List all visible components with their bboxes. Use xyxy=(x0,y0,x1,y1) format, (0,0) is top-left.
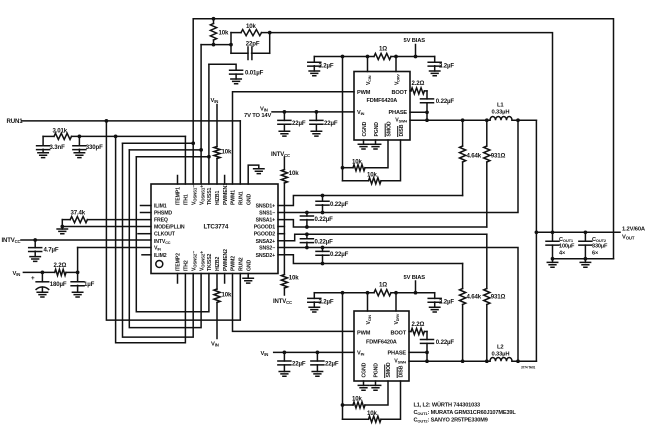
svg-text:RUN1: RUN1 xyxy=(239,191,245,205)
ground xyxy=(580,262,590,267)
resistor 931ohm SNSA1+ xyxy=(486,120,488,146)
wire SMOD/DISB pullup vertical xyxy=(342,57,344,181)
wire PHASE-VSWH tie xyxy=(426,352,428,361)
svg-text:BOOT: BOOT xyxy=(390,331,406,337)
pin stub PGOOD2 xyxy=(278,233,284,235)
wire 5V rail xyxy=(314,56,374,58)
svg-text:VOSNS1−: VOSNS1− xyxy=(191,185,197,205)
wire TK/SS1 pin riser xyxy=(208,64,210,184)
svg-text:10k: 10k xyxy=(246,23,256,30)
wire PWM1 to power stage xyxy=(233,92,355,184)
wire RUN1 pin drop xyxy=(239,121,241,184)
resistor 10k HIZB1 xyxy=(216,105,218,147)
wire VSWH output xyxy=(410,119,490,121)
wire VOSNS1+-VOSNS2+ bracket xyxy=(129,149,201,151)
svg-text:PGOOD2: PGOOD2 xyxy=(254,232,276,238)
ground xyxy=(547,262,557,267)
svg-text:L2: L2 xyxy=(497,344,503,350)
svg-text:COUT2: SANYO 2R5TPE330M9: COUT2: SANYO 2R5TPE330M9 xyxy=(414,418,488,424)
svg-text:CLKOUT: CLKOUT xyxy=(154,232,176,238)
svg-text:SNSA2+: SNSA2+ xyxy=(256,239,276,245)
svg-text:FDMF6420A: FDMF6420A xyxy=(366,340,397,346)
svg-text:ITEMP2: ITEMP2 xyxy=(176,253,182,271)
wire VCIN xyxy=(367,57,369,72)
svg-text:INTVCC: INTVCC xyxy=(273,299,292,305)
svg-text:100µF: 100µF xyxy=(559,244,575,250)
svg-text:ITEMP1: ITEMP1 xyxy=(176,187,182,205)
svg-text:2.2µF: 2.2µF xyxy=(319,299,334,306)
ground xyxy=(72,292,82,297)
svg-text:1.2V/60A: 1.2V/60A xyxy=(622,227,646,233)
svg-text:PWM: PWM xyxy=(357,90,371,96)
capacitor 2.2uF left xyxy=(313,57,315,63)
wire SNSA2+ rail xyxy=(278,234,487,241)
svg-text:0.01µF: 0.01µF xyxy=(245,70,264,77)
svg-text:10k: 10k xyxy=(222,149,232,156)
svg-text:0.33µH: 0.33µH xyxy=(492,109,510,115)
svg-text:1Ω: 1Ω xyxy=(379,46,387,53)
wire VOSNS1+ pin riser xyxy=(200,45,202,184)
resistor 10k DISB xyxy=(381,381,401,419)
svg-text:0.22µF: 0.22µF xyxy=(315,238,334,245)
wire VSWH output 2 xyxy=(409,360,490,362)
svg-text:VOSNS2−: VOSNS2− xyxy=(191,251,197,271)
pin stub ITEMP1 xyxy=(177,176,179,185)
wire PGND xyxy=(375,140,377,144)
resistor 10k SMOD xyxy=(365,140,388,168)
pin stub ILIM1 xyxy=(141,205,152,207)
svg-text:VCIN: VCIN xyxy=(366,315,372,325)
svg-text:931Ω: 931Ω xyxy=(491,153,506,160)
svg-text:ITH2: ITH2 xyxy=(184,260,190,271)
resistor 2.2ohm BOOT xyxy=(410,90,411,92)
ground xyxy=(38,153,48,158)
svg-text:PHASE: PHASE xyxy=(387,351,406,357)
wire ITH1-ITH2 bracket xyxy=(116,136,186,342)
svg-text:VIN: VIN xyxy=(357,351,365,357)
svg-text:INTVCC: INTVCC xyxy=(154,239,171,245)
svg-text:1µF: 1µF xyxy=(84,281,95,288)
wire SNSD1+ rail xyxy=(278,196,463,206)
resistor 10k HIZB2 pulldown to VIN xyxy=(216,274,218,290)
resistor 10k DISB xyxy=(381,140,401,181)
wire GND pin xyxy=(248,165,259,184)
ground xyxy=(37,292,47,297)
wire MODE/PLLIN to gnd xyxy=(62,226,151,228)
capacitor 22uF input 2 xyxy=(315,110,319,114)
svg-text:4.7µF: 4.7µF xyxy=(44,247,59,254)
svg-text:10k: 10k xyxy=(222,292,232,299)
svg-text:L1, L2: WÜRTH 744301033: L1, L2: WÜRTH 744301033 xyxy=(414,401,481,408)
pin stub PHSMD xyxy=(141,212,152,214)
svg-text:VOUT: VOUT xyxy=(622,235,635,241)
svg-text:SNSA1+: SNSA1+ xyxy=(256,218,276,224)
svg-text:DISB: DISB xyxy=(398,365,404,377)
svg-text:SNS2−: SNS2− xyxy=(259,246,275,252)
capacitor 22uF input 1 xyxy=(283,110,287,114)
resistor 2.2ohm BOOT xyxy=(409,331,411,333)
svg-text:931Ω: 931Ω xyxy=(491,294,506,301)
wire SNSA1+ rail xyxy=(278,220,487,227)
pin stub PWMEN2 xyxy=(224,274,226,284)
svg-text:VIN: VIN xyxy=(357,110,365,116)
svg-text:22µF: 22µF xyxy=(324,120,338,127)
svg-text:2.2µF: 2.2µF xyxy=(319,63,334,70)
svg-text:DISB: DISB xyxy=(399,124,405,136)
svg-text:COUT1: MURATA GRM31CR60J107ME3: COUT1: MURATA GRM31CR60J107ME39L xyxy=(414,410,517,416)
ground xyxy=(279,131,289,136)
svg-text:PWMEN1: PWMEN1 xyxy=(223,183,229,205)
wire RUN1-RUN2 bracket xyxy=(106,121,240,320)
resistor 10k PGOOD pullup bottom xyxy=(281,275,287,289)
svg-text:SNSD1+: SNSD1+ xyxy=(256,204,276,210)
svg-text:PGND: PGND xyxy=(374,122,380,137)
resistor 1ohm xyxy=(374,290,391,296)
svg-text:ILIM1: ILIM1 xyxy=(154,204,167,210)
svg-text:1Ω: 1Ω xyxy=(379,282,387,289)
capacitor 1uF xyxy=(77,272,79,281)
capacitor 4.7uF xyxy=(34,240,36,248)
svg-text:22µF: 22µF xyxy=(325,361,339,368)
svg-text:RUN1: RUN1 xyxy=(7,118,24,125)
svg-text:2.2Ω: 2.2Ω xyxy=(412,80,425,87)
svg-text:0.33µH: 0.33µH xyxy=(492,351,510,357)
svg-text:INTVCC: INTVCC xyxy=(2,238,21,244)
svg-text:SMOD: SMOD xyxy=(386,121,392,136)
wire L2 to VOUT riser xyxy=(512,360,536,362)
svg-text:HIZB2: HIZB2 xyxy=(215,256,221,271)
ground xyxy=(243,278,253,283)
capacitor 0.22uF SNSA1+/SNS1- xyxy=(306,213,308,217)
ground xyxy=(231,79,241,84)
svg-text:CGND: CGND xyxy=(362,362,368,377)
wire VIN pin route xyxy=(78,247,151,249)
svg-text:FREQ: FREQ xyxy=(154,218,168,224)
capacitor 330pF xyxy=(78,136,80,145)
svg-text:37.4k: 37.4k xyxy=(71,209,86,216)
capacitor 0.22uF SNSA2+/SNS2- xyxy=(306,234,308,239)
svg-text:+: + xyxy=(31,275,35,282)
svg-text:330µF: 330µF xyxy=(592,244,608,250)
svg-text:PWMEN2: PWMEN2 xyxy=(223,249,229,271)
resistor 4.64k SNSD2+ xyxy=(462,264,464,289)
svg-text:CGND: CGND xyxy=(362,121,368,136)
svg-text:10k: 10k xyxy=(367,410,377,417)
svg-text:4.64k: 4.64k xyxy=(467,153,482,160)
svg-text:3.3nF: 3.3nF xyxy=(50,144,66,151)
capacitor 0.22uF SNSD1+/SNS1- xyxy=(322,196,324,202)
capacitor COUT2 330uF x6 xyxy=(584,232,586,241)
wire CGND xyxy=(363,140,365,144)
svg-text:VSWH: VSWH xyxy=(395,117,407,123)
svg-text:GND: GND xyxy=(246,260,252,271)
wire ITH1 pin drop xyxy=(184,136,186,184)
pin stub PWMEN1 xyxy=(224,176,226,185)
svg-text:VDRV: VDRV xyxy=(394,74,400,85)
svg-text:10k: 10k xyxy=(289,275,299,282)
svg-text:MODE/PLLIN: MODE/PLLIN xyxy=(154,225,185,231)
wire SNS1- rail to L1 output xyxy=(278,120,518,212)
resistor 10k SMOD xyxy=(365,381,388,405)
resistor 931ohm SNSA2+ xyxy=(486,234,488,288)
wire SNS2- rail to L2 output xyxy=(278,248,518,362)
svg-text:RUN2: RUN2 xyxy=(239,257,245,271)
wire PHASE xyxy=(409,351,427,353)
pin stub ITEMP2 xyxy=(177,274,179,284)
ground xyxy=(370,144,380,149)
resistor 10k vertical divider xyxy=(213,19,215,24)
wire PWM2 to power stage xyxy=(233,274,355,332)
ground xyxy=(57,229,67,234)
svg-text:TK/SS1: TK/SS1 xyxy=(207,187,213,205)
ground xyxy=(311,131,321,136)
svg-text:4.64k: 4.64k xyxy=(467,294,482,301)
ground xyxy=(254,169,264,174)
pin stub PGOOD1 xyxy=(278,226,284,228)
wire SNSD2+ rail xyxy=(278,255,463,264)
svg-text:180µF: 180µF xyxy=(50,281,67,288)
svg-text:3774 TA01: 3774 TA01 xyxy=(521,366,536,370)
svg-text:COUT1: COUT1 xyxy=(559,237,574,243)
wire output gnd sense rail xyxy=(553,258,614,260)
svg-text:PGND: PGND xyxy=(373,363,379,378)
svg-text:PWM1: PWM1 xyxy=(231,190,237,205)
svg-text:HIZB1: HIZB1 xyxy=(215,190,221,205)
wire PHASE xyxy=(410,111,427,113)
svg-text:VIN: VIN xyxy=(261,351,269,357)
capacitor 2.2uF right xyxy=(434,57,436,63)
svg-text:PWM2: PWM2 xyxy=(231,256,237,271)
resistor 4.64k SNSD1+ xyxy=(462,120,464,146)
wire PHASE-VSWH tie xyxy=(426,112,428,120)
resistor 1ohm xyxy=(374,53,391,59)
node wire VOSNS1+ junction xyxy=(201,44,231,46)
svg-text:TK/SS2: TK/SS2 xyxy=(207,253,213,271)
svg-text:5V BIAS: 5V BIAS xyxy=(404,275,426,281)
wire VCIN xyxy=(367,293,369,311)
ground xyxy=(309,307,319,312)
svg-text:VIN: VIN xyxy=(211,98,219,104)
wire VOSNS1- pin drop xyxy=(192,143,194,184)
capacitor 22pF (parallel RC) xyxy=(231,52,248,54)
ground xyxy=(358,385,368,390)
ground xyxy=(430,71,440,76)
capacitor 22uF input 4 xyxy=(316,351,320,355)
svg-text:2.2µF: 2.2µF xyxy=(439,299,454,306)
svg-text:PGOOD1: PGOOD1 xyxy=(254,225,276,231)
wire L1 to VOUT xyxy=(512,119,536,121)
svg-text:10k: 10k xyxy=(219,30,229,37)
wire phase1 output down xyxy=(535,120,537,361)
svg-text:L1: L1 xyxy=(497,102,504,108)
ground xyxy=(358,144,368,149)
svg-text:10k: 10k xyxy=(289,170,299,177)
ground xyxy=(279,372,289,377)
wire VIN rail xyxy=(272,111,354,113)
svg-text:FDMF6420A: FDMF6420A xyxy=(367,98,398,104)
svg-text:0.22µF: 0.22µF xyxy=(436,339,455,346)
svg-text:0.22µF: 0.22µF xyxy=(436,98,455,105)
capacitor 0.22uF BOOT xyxy=(426,332,428,340)
wire top sense bus (VOSNS1- to output gnd sense) xyxy=(193,19,613,259)
svg-text:VSWH: VSWH xyxy=(394,358,406,364)
svg-text:SNSD2+: SNSD2+ xyxy=(256,253,276,259)
svg-text:PHASE: PHASE xyxy=(388,110,407,116)
ground xyxy=(309,71,319,76)
capacitor 0.01uF soft-start on TK/SS1 xyxy=(209,64,236,70)
capacitor 0.22uF BOOT xyxy=(426,91,428,99)
capacitor 2.2uF right xyxy=(434,293,436,299)
wire second bus (VOSNS1+ RC to VOUT) xyxy=(270,33,553,233)
ground xyxy=(430,307,440,312)
svg-text:INTVCC: INTVCC xyxy=(271,152,290,158)
wire VOUT line xyxy=(536,231,620,233)
svg-text:VCIN: VCIN xyxy=(366,75,372,85)
svg-text:330pF: 330pF xyxy=(86,144,103,151)
svg-text:VIN: VIN xyxy=(260,107,268,113)
wire 5V rail 2 xyxy=(314,292,374,294)
capacitor 0.22uF SNSD2+/SNS2- xyxy=(322,248,324,252)
svg-text:LTC3774: LTC3774 xyxy=(204,224,229,231)
wire GND bottom pin xyxy=(247,274,249,279)
pin stub CLKOUT xyxy=(138,233,151,235)
svg-text:5V BIAS: 5V BIAS xyxy=(404,38,426,44)
svg-text:22pF: 22pF xyxy=(246,41,260,48)
svg-text:22µF: 22µF xyxy=(292,120,306,127)
capacitor 3.3nF xyxy=(42,136,44,145)
svg-text:10k: 10k xyxy=(367,172,377,179)
capacitor COUT1 100uF x4 xyxy=(552,232,554,241)
svg-text:ILIM2: ILIM2 xyxy=(154,253,167,259)
capacitor 180uF bulk (polarized) xyxy=(41,272,43,281)
pin stub ILIM2 xyxy=(142,254,151,256)
wire TK/SS1-TK/SS2 bracket xyxy=(136,156,209,158)
svg-text:22µF: 22µF xyxy=(292,361,306,368)
svg-text:6×: 6× xyxy=(592,251,599,257)
ground xyxy=(30,257,40,262)
wire VOSNS1--VOSNS2- bracket xyxy=(123,142,194,144)
capacitor 22uF input 3 xyxy=(283,351,287,355)
svg-text:PHSMD: PHSMD xyxy=(154,211,172,217)
svg-text:VOSNS1+: VOSNS1+ xyxy=(199,185,205,205)
svg-text:SNS1−: SNS1− xyxy=(259,211,275,217)
svg-text:0.22µF: 0.22µF xyxy=(315,216,334,223)
resistor 10k feedback (parallel RC) xyxy=(231,32,241,34)
wire VDRV xyxy=(395,57,397,72)
svg-text:2.2µF: 2.2µF xyxy=(439,63,454,70)
svg-text:GND: GND xyxy=(246,194,252,205)
wire RUN1 xyxy=(22,120,240,122)
wire CGND xyxy=(363,381,365,385)
svg-text:VIN: VIN xyxy=(154,246,161,252)
svg-text:COUT2: COUT2 xyxy=(592,237,607,243)
ground xyxy=(74,153,84,158)
svg-text:BOOT: BOOT xyxy=(391,90,407,96)
svg-text:VIN: VIN xyxy=(13,271,21,277)
svg-text:10k: 10k xyxy=(352,158,362,165)
svg-text:0.22µF: 0.22µF xyxy=(330,201,349,208)
svg-text:ITH1: ITH1 xyxy=(184,194,190,205)
svg-text:VIN: VIN xyxy=(211,342,219,348)
resistor 10k PGOOD pullup top xyxy=(283,157,285,170)
svg-text:7V TO 14V: 7V TO 14V xyxy=(244,113,272,119)
svg-text:4×: 4× xyxy=(559,251,566,257)
wire SMOD/DISB pullup vertical 2 xyxy=(342,293,344,420)
capacitor 2.2uF left xyxy=(313,293,315,299)
svg-text:VDRV: VDRV xyxy=(394,313,400,324)
ground xyxy=(312,372,322,377)
wire PGND xyxy=(375,381,377,385)
wire VDRV xyxy=(395,293,397,311)
svg-text:VOSNS2+: VOSNS2+ xyxy=(199,251,205,271)
svg-text:PWM: PWM xyxy=(357,331,371,337)
svg-text:SMOD: SMOD xyxy=(386,362,392,377)
wire VIN rail 2 xyxy=(274,351,354,353)
svg-text:2.2Ω: 2.2Ω xyxy=(412,321,425,328)
svg-text:0.22µF: 0.22µF xyxy=(330,251,349,258)
svg-text:10k: 10k xyxy=(352,396,362,403)
ground xyxy=(370,385,380,390)
